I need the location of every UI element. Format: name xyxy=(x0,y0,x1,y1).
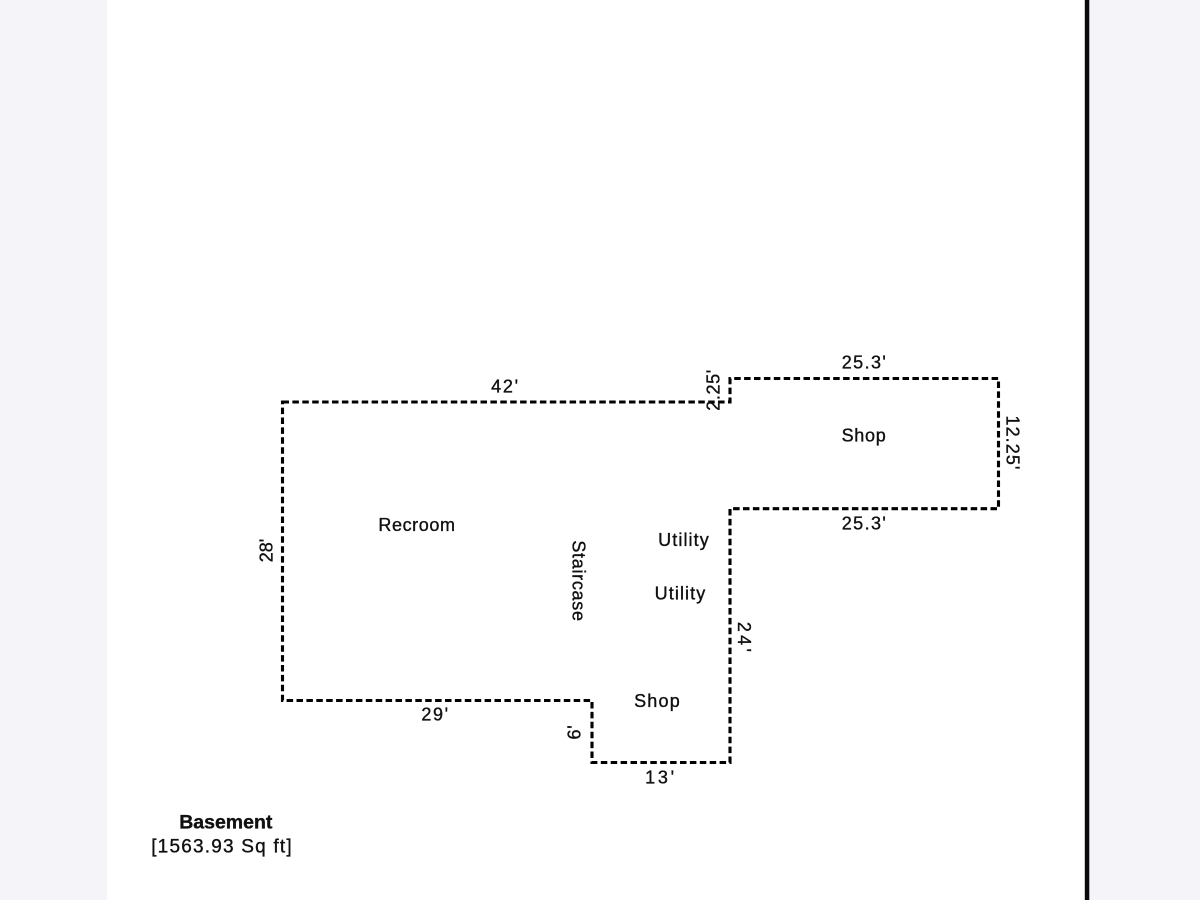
svg-text:Basement: Basement xyxy=(179,812,273,834)
svg-text:[1563.93 Sq ft]: [1563.93 Sq ft] xyxy=(151,837,293,858)
svg-text:12.25': 12.25' xyxy=(1003,415,1023,470)
svg-text:13': 13' xyxy=(645,768,677,788)
svg-text:Utility: Utility xyxy=(658,530,710,550)
svg-text:Shop: Shop xyxy=(634,691,681,711)
svg-text:Recroom: Recroom xyxy=(378,515,455,535)
svg-text:28': 28' xyxy=(257,539,277,562)
svg-text:6': 6' xyxy=(565,724,585,739)
svg-text:Staircase: Staircase xyxy=(569,540,589,621)
svg-text:Shop: Shop xyxy=(842,426,887,446)
svg-text:2.25': 2.25' xyxy=(704,369,724,410)
svg-text:25.3': 25.3' xyxy=(842,514,887,534)
svg-text:29': 29' xyxy=(421,705,449,725)
svg-text:42': 42' xyxy=(491,377,520,397)
svg-text:Utility: Utility xyxy=(655,584,707,604)
svg-text:25.3': 25.3' xyxy=(842,353,887,373)
svg-text:24': 24' xyxy=(734,622,754,655)
